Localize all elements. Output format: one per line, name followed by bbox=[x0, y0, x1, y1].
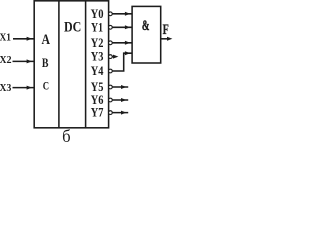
svg-text:Y2: Y2 bbox=[91, 36, 104, 50]
svg-text:Y3: Y3 bbox=[91, 50, 104, 64]
svg-text:C: C bbox=[43, 78, 49, 92]
svg-text:A: A bbox=[42, 32, 51, 48]
svg-text:X3: X3 bbox=[0, 83, 11, 94]
svg-text:Y7: Y7 bbox=[91, 106, 104, 120]
svg-text:&: & bbox=[142, 18, 150, 34]
svg-text:X1: X1 bbox=[0, 33, 11, 44]
svg-text:X2: X2 bbox=[0, 55, 12, 66]
svg-text:Y5: Y5 bbox=[91, 80, 104, 94]
svg-text:Y4: Y4 bbox=[91, 64, 104, 78]
svg-text:DC: DC bbox=[64, 20, 81, 36]
svg-text:Y0: Y0 bbox=[91, 7, 104, 21]
svg-text:б: б bbox=[62, 126, 71, 142]
svg-text:F: F bbox=[163, 22, 169, 38]
svg-text:B: B bbox=[42, 55, 49, 70]
svg-text:Y1: Y1 bbox=[91, 20, 103, 34]
